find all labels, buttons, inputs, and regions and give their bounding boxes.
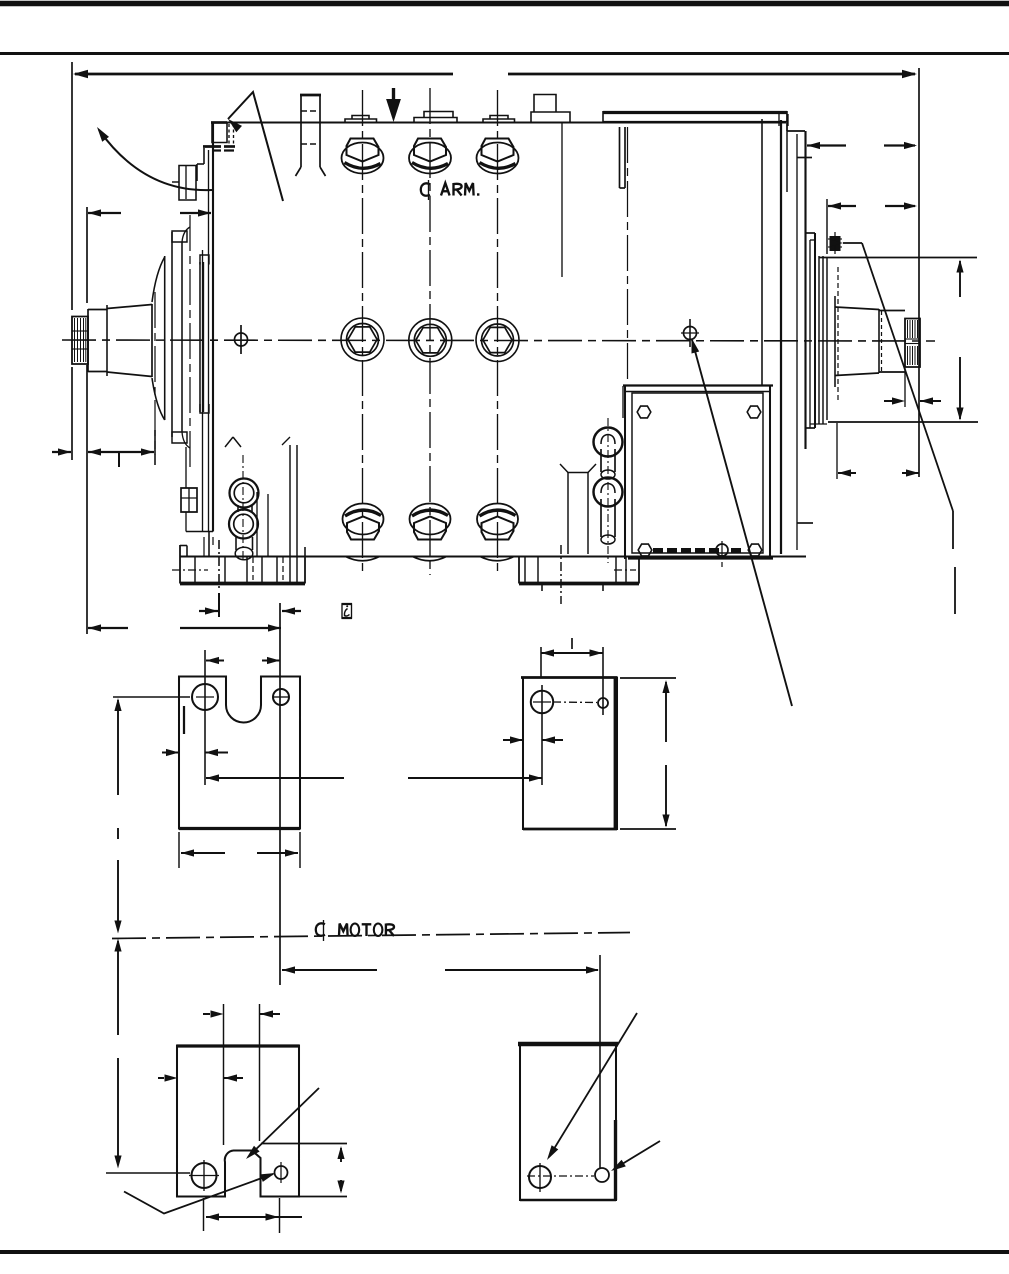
left foot centerline <box>218 540 220 590</box>
bracket3 hole 1 <box>192 1163 217 1188</box>
left stud ring 1 <box>230 479 259 508</box>
dimension shaft-to-frame y213 <box>88 212 121 214</box>
cap over bolt 1 <box>345 116 377 123</box>
leader to top stud <box>228 119 242 132</box>
pinion shaft step <box>878 309 880 373</box>
frame step top left <box>203 148 205 164</box>
oil gauge marks <box>225 437 233 447</box>
dimension y206 <box>828 205 856 207</box>
right stud centerline <box>607 418 609 563</box>
middle bolt 1 <box>341 318 384 361</box>
grease box top left <box>212 123 227 143</box>
top bolt 3 <box>477 143 519 174</box>
bracket2 outline <box>523 678 617 830</box>
drain plug mark <box>716 544 728 556</box>
washer bars <box>203 145 221 148</box>
extension line right x919 <box>918 68 920 477</box>
box inner <box>632 393 763 553</box>
bolt centerline 1 <box>362 90 364 575</box>
motor top right corner <box>786 123 788 132</box>
frame seam x762 <box>761 119 763 385</box>
leader to bracket4 hole1 <box>549 1013 637 1157</box>
bracket2 edge-hole dimension <box>503 739 523 741</box>
force down arrow <box>392 88 395 102</box>
right stud ring 1 <box>594 428 623 457</box>
left stud ring 2 <box>229 510 258 539</box>
bracket1 hole1 centerline <box>204 650 206 785</box>
bracket3 outline <box>177 1046 299 1197</box>
bracket3 notch ext lines <box>223 1004 225 1145</box>
gauge line lower <box>828 421 978 423</box>
bracket2 hole 1 <box>531 691 553 713</box>
bracket4 outline <box>520 1044 616 1201</box>
lifting lug <box>300 94 302 167</box>
bracket1 hole 2 <box>273 689 289 705</box>
frame seam x781 <box>780 120 782 554</box>
hidden line x190 <box>189 215 191 468</box>
motor centerline <box>112 933 630 939</box>
right vertical dimension <box>959 261 961 297</box>
MOTOR centerline label <box>316 923 325 935</box>
right hidden line <box>837 267 839 400</box>
block on top of frame <box>531 95 570 124</box>
top bolt 2 <box>409 143 451 174</box>
bracket1 bottom dimension <box>178 832 180 868</box>
boss bump 2 <box>413 557 447 561</box>
stud distance dimension <box>282 966 295 973</box>
tick right edge <box>797 157 812 159</box>
bracket3 notch height dimension <box>261 1143 347 1145</box>
hidden seam <box>627 127 629 381</box>
dimension y145 <box>807 144 846 146</box>
brush rigging lines <box>289 445 291 556</box>
ext line x827 <box>826 199 828 254</box>
bracket1 hole leader line <box>113 696 190 698</box>
top bolt 1 <box>342 143 384 174</box>
extension line left x72 <box>71 62 73 310</box>
bracket3 notch dimension <box>203 1013 210 1015</box>
bracket1 edge-hole dimension <box>162 751 179 753</box>
bell curve top <box>152 257 165 302</box>
motor right edge <box>804 131 806 449</box>
motor bottom left corner <box>186 531 213 533</box>
right mounting foot <box>518 557 520 584</box>
pinion shaft taper <box>835 307 879 310</box>
bracket1 hole 1 <box>192 684 218 710</box>
boss bump 3 <box>480 557 514 561</box>
box bolt BR <box>748 544 762 556</box>
right foot centerline <box>560 545 562 604</box>
commutator cover top plate <box>603 111 787 114</box>
bracket1 inner mark <box>183 706 185 734</box>
header rule <box>0 52 1009 55</box>
bearing plate A <box>164 256 166 420</box>
motor top edge <box>213 121 786 123</box>
dimension shaft end y452 <box>52 451 71 453</box>
leader to notch <box>248 1088 319 1157</box>
box bolt BL <box>638 544 652 556</box>
left mounting foot <box>179 545 181 584</box>
bottom bolt 2 <box>410 504 451 535</box>
left stud body <box>237 505 239 512</box>
right flange ticks <box>806 232 815 234</box>
shaft threaded end <box>72 317 88 365</box>
cap over bolt 3 <box>483 116 515 124</box>
bracket2 ext x541 <box>540 647 542 677</box>
bracket3 hole leader line <box>106 1172 190 1174</box>
leader to bracket4 hole2 <box>614 1141 660 1169</box>
shaft taper <box>107 305 152 309</box>
shaft step <box>87 309 89 372</box>
hole distance dimension <box>206 777 344 779</box>
bolt centerline 2 <box>429 88 431 575</box>
long extension line x280 <box>279 603 281 985</box>
shaft centerline <box>62 340 935 341</box>
top border rule <box>0 1 1009 7</box>
frame seam x787 <box>786 114 788 192</box>
frame bottom edge left span <box>305 555 519 557</box>
box bolt TL <box>637 406 651 418</box>
dimension thread width y401 <box>884 400 892 402</box>
bearing plate B <box>171 232 173 437</box>
extension line x155 <box>154 430 156 465</box>
vertical dimension upper <box>114 698 121 711</box>
bottom border rule <box>0 1250 1009 1254</box>
taper end <box>151 304 153 377</box>
cap over bolt 2 <box>414 112 457 124</box>
bracket2 hole 2 <box>598 698 608 708</box>
bracket4 hole link <box>527 1175 594 1177</box>
center mark right <box>684 327 697 340</box>
dimension y473 <box>838 472 856 474</box>
bracket2 top dimension <box>541 652 603 654</box>
bracket2 hole1 centerline <box>541 685 543 785</box>
bell curve bottom <box>152 378 165 420</box>
ext line x905 <box>904 368 906 407</box>
shaft extension line x87 <box>86 207 88 303</box>
gauge line upper <box>819 257 977 259</box>
bracket3 bottom dimension <box>203 1198 205 1231</box>
middle bolt 3 <box>476 319 519 362</box>
ARM centerline label <box>421 183 430 195</box>
vertical dimension lower <box>114 939 121 952</box>
vent bar <box>619 127 621 188</box>
bracket2 hole link <box>553 701 597 704</box>
bracket1 top dimension <box>206 659 224 661</box>
ext line x837 <box>836 423 838 479</box>
bracket3 hole 2 <box>275 1166 288 1179</box>
plate end cap <box>779 113 788 126</box>
motor left edge <box>212 122 214 532</box>
bracket4 hole2 centerline <box>599 955 601 1168</box>
bracket4 hole 2 <box>595 1168 609 1182</box>
box bolt TR <box>747 406 761 418</box>
leader to center mark <box>692 338 700 354</box>
stud support bracket <box>560 464 568 473</box>
bracket4 hole 1 <box>529 1166 551 1188</box>
bolt centerline 3 <box>497 90 499 575</box>
left stud centerline <box>242 455 244 560</box>
bracket3 edge dimension <box>158 1077 164 1079</box>
box outer <box>623 384 773 386</box>
box left side <box>179 166 196 201</box>
bracket2 height dimension <box>620 677 676 679</box>
reference flag symbol <box>342 604 352 618</box>
stud hidden lines <box>228 124 230 147</box>
bracket1 outline <box>179 677 300 829</box>
leader to cap nut <box>830 239 843 246</box>
motor inner seam right <box>796 134 798 550</box>
pinion shaft small cyl <box>879 310 905 312</box>
dimension y628 <box>88 627 128 629</box>
bottom bolt 1 <box>343 504 384 535</box>
bearing cap nut <box>830 236 841 251</box>
overall length dimension line <box>75 73 453 76</box>
leader to bracket3 hole2 <box>124 1174 273 1214</box>
bracket2 hole2 centerline <box>602 647 604 715</box>
drain dash row <box>653 548 663 553</box>
shaft threaded end right <box>905 319 920 368</box>
frame bottom edge right span <box>639 555 806 557</box>
right stud ring 2 <box>594 478 623 507</box>
boss bump 1 <box>346 557 380 561</box>
brush cover seam <box>561 123 563 278</box>
right flange plates <box>809 240 811 428</box>
rotation arc arrow <box>99 130 212 190</box>
dimension pair y611 <box>199 610 218 612</box>
frame bottom right tick <box>797 522 813 524</box>
left frame lower box <box>181 488 197 512</box>
center mark left <box>235 333 248 346</box>
bottom bolt 3 <box>477 504 518 535</box>
bearing plate C <box>199 262 201 412</box>
dimension tick x219 <box>218 593 220 617</box>
middle bolt 2 <box>409 319 452 362</box>
